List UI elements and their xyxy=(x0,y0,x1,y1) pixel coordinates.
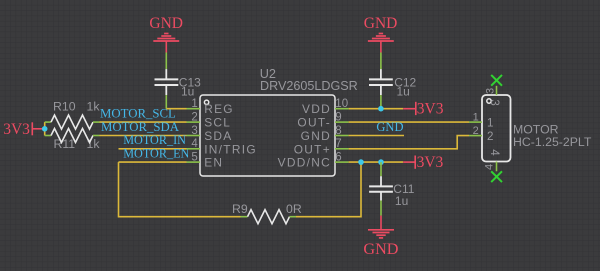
ground GND (bottom) xyxy=(363,216,398,258)
svg-text:VDD: VDD xyxy=(302,102,331,116)
svg-text:1u: 1u xyxy=(181,84,194,98)
pin 3 SDA xyxy=(187,135,201,137)
svg-text:1: 1 xyxy=(191,98,197,110)
svg-text:3V3: 3V3 xyxy=(417,101,444,118)
capacitor C11 xyxy=(369,162,415,216)
svg-text:MOTOR_SDA: MOTOR_SDA xyxy=(101,120,180,134)
pin 1 xyxy=(469,121,482,123)
wire MOTOR_SCL (R10 to pin 2) xyxy=(100,121,187,123)
pin 4 (bottom) xyxy=(496,162,498,172)
svg-text:GND: GND xyxy=(301,129,331,143)
svg-text:2: 2 xyxy=(487,130,493,143)
junction C11 / VDD/NC xyxy=(378,159,384,165)
svg-text:VDD/NC: VDD/NC xyxy=(278,156,331,170)
pin 2 SCL xyxy=(187,121,201,123)
power flag 3V3 (left) xyxy=(3,121,45,138)
svg-text:GND: GND xyxy=(376,120,403,134)
svg-text:3: 3 xyxy=(191,125,197,137)
wire OUT- row (pin 9 to connector pin 1) xyxy=(349,121,469,123)
wire R9 to VDD/NC row xyxy=(296,162,361,217)
resistor R10 xyxy=(45,100,101,130)
svg-text:1: 1 xyxy=(487,116,493,129)
pin 2 xyxy=(469,135,482,137)
svg-text:7: 7 xyxy=(335,138,341,150)
capacitor C12 xyxy=(369,53,417,99)
svg-text:4: 4 xyxy=(483,164,495,170)
svg-text:1u: 1u xyxy=(395,194,408,208)
resistor R9 xyxy=(232,202,302,224)
wire VDD row (pin 10 to 3V3) xyxy=(349,108,404,110)
svg-text:R11: R11 xyxy=(54,137,76,151)
svg-text:R10: R10 xyxy=(53,100,76,114)
svg-text:5: 5 xyxy=(191,151,197,163)
svg-text:REG: REG xyxy=(204,102,234,116)
svg-text:4: 4 xyxy=(488,149,501,156)
wire C12 down to VDD row xyxy=(380,95,382,109)
svg-text:MOTOR_SCL: MOTOR_SCL xyxy=(100,107,176,121)
pin 3 (top) xyxy=(496,86,498,95)
svg-text:SCL: SCL xyxy=(204,116,231,130)
wire MOTOR_SDA (R11 to pin 3) xyxy=(100,135,187,137)
svg-text:MOTOR_IN: MOTOR_IN xyxy=(123,133,186,147)
no-connect X (bottom pin 4) xyxy=(491,171,502,182)
wire C13 to pin 1 REG xyxy=(166,95,186,109)
wire MOTOR_EN (to pin 5) xyxy=(119,161,187,163)
svg-text:1k: 1k xyxy=(87,100,101,114)
pin 6 VDD/NC xyxy=(335,161,349,163)
wire GND row (pin 8 stub wire) xyxy=(349,135,404,137)
svg-text:1u: 1u xyxy=(397,84,410,98)
svg-text:3V3: 3V3 xyxy=(417,154,444,171)
junction R9 riser / VDD/NC xyxy=(358,159,364,165)
svg-text:DRV2605LDGSR: DRV2605LDGSR xyxy=(260,79,358,93)
svg-text:HC-1.25-2PLT: HC-1.25-2PLT xyxy=(513,135,592,149)
svg-text:GND: GND xyxy=(149,15,183,32)
pin 9 OUT- xyxy=(335,121,349,123)
svg-text:3V3: 3V3 xyxy=(3,121,30,138)
power flag 3V3 (VDD) xyxy=(403,101,444,118)
svg-text:IN/TRIG: IN/TRIG xyxy=(204,142,257,156)
resistor R11 xyxy=(45,129,101,152)
junction 3V3/R10/R11 xyxy=(42,126,48,132)
svg-text:4: 4 xyxy=(191,138,198,150)
svg-text:3: 3 xyxy=(485,88,497,94)
pin 4 IN/TRIG xyxy=(187,148,201,150)
pin 10 VDD xyxy=(335,108,349,110)
wire OUT+ (pin 7 to connector pin 2) xyxy=(349,136,469,149)
svg-text:6: 6 xyxy=(335,151,341,163)
svg-text:R9: R9 xyxy=(232,202,248,216)
svg-text:9: 9 xyxy=(335,111,341,123)
IC U2 DRV2605LDGSR xyxy=(187,67,358,176)
svg-text:0R: 0R xyxy=(286,202,302,216)
svg-text:OUT+: OUT+ xyxy=(294,142,331,156)
ground GND (top left) xyxy=(149,15,183,53)
svg-text:MOTOR_EN: MOTOR_EN xyxy=(123,147,189,161)
wire EN down to R9 rail xyxy=(119,162,241,217)
pin 5 EN xyxy=(187,161,201,163)
wire 3V3 riser to R10/R11 xyxy=(44,122,46,135)
svg-text:GND: GND xyxy=(363,240,398,258)
ground GND (top right) xyxy=(364,15,398,53)
wire VDD/NC row (pin 6 to 3V3) xyxy=(349,161,404,163)
svg-text:1: 1 xyxy=(473,111,479,123)
pin 1 REG xyxy=(187,108,201,110)
svg-text:8: 8 xyxy=(335,125,341,137)
svg-text:2: 2 xyxy=(191,111,197,123)
svg-text:SDA: SDA xyxy=(204,129,232,143)
svg-text:GND: GND xyxy=(364,15,398,32)
no-connect X (top pin 3) xyxy=(491,75,502,86)
power flag 3V3 (VDD/NC) xyxy=(403,154,443,171)
svg-text:3: 3 xyxy=(488,99,501,105)
svg-text:2: 2 xyxy=(473,125,479,137)
svg-text:EN: EN xyxy=(204,156,223,170)
capacitor C13 xyxy=(155,53,202,99)
connector MOTOR HC-1.25-2PLT xyxy=(469,86,592,172)
svg-text:10: 10 xyxy=(335,98,348,110)
svg-text:OUT-: OUT- xyxy=(297,116,331,130)
pin 8 GND xyxy=(335,135,349,137)
pin 7 OUT+ xyxy=(335,148,349,150)
wire MOTOR_IN (to pin 4) xyxy=(119,148,187,150)
junction C12/VDD xyxy=(378,106,384,112)
